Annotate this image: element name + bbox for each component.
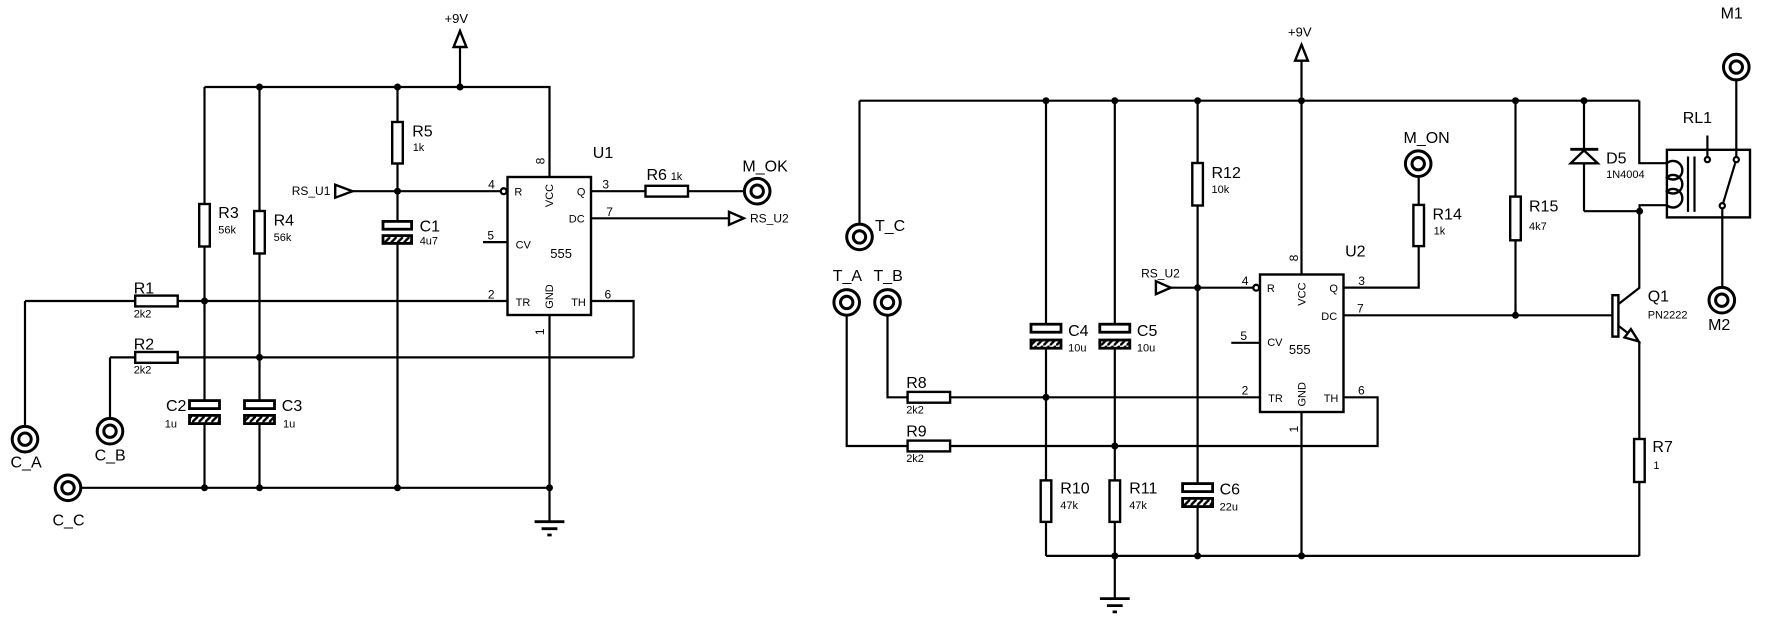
svg-text:2k2: 2k2 [906, 404, 924, 416]
node dot R15/DC [1512, 312, 1519, 319]
svg-text:GND: GND [544, 284, 556, 309]
wire U1 pin1 GND down [548, 315, 550, 488]
connector M_ON [1404, 130, 1450, 177]
wire U2 pin3 Q to R14 [1344, 246, 1419, 288]
power +9V symbol (left) [445, 11, 469, 87]
svg-text:U2: U2 [1345, 243, 1366, 260]
svg-text:C_C: C_C [53, 512, 85, 529]
svg-text:+9V: +9V [445, 11, 469, 26]
svg-text:22u: 22u [1220, 501, 1238, 513]
resistor R3 [199, 87, 239, 401]
wire top rail right [860, 100, 1640, 102]
svg-text:R15: R15 [1529, 199, 1558, 216]
collector [1618, 211, 1639, 304]
wire U2 pin1 GND [1300, 412, 1302, 556]
resistor R8 [906, 375, 1260, 417]
svg-text:2k2: 2k2 [906, 453, 924, 465]
svg-text:C6: C6 [1220, 481, 1241, 498]
wire U2 pin8 VCC [1300, 101, 1302, 275]
svg-text:U1: U1 [593, 145, 614, 162]
svg-text:555: 555 [550, 246, 572, 261]
emitter arrowhead [1625, 329, 1639, 341]
diode D5 [1570, 101, 1644, 212]
resistor R10 [1041, 480, 1090, 556]
svg-text:Q1: Q1 [1648, 288, 1669, 305]
svg-text:10k: 10k [1212, 184, 1230, 196]
resistor R1 [25, 280, 508, 320]
svg-text:R4: R4 [274, 212, 295, 229]
node dot C3 bottom [256, 484, 263, 491]
capacitor C3 [245, 398, 303, 488]
emitter [1618, 326, 1639, 439]
node dot C2 bottom [201, 484, 208, 491]
node dot R9/C5 [1111, 443, 1118, 450]
svg-text:1u: 1u [165, 419, 177, 431]
svg-text:1k: 1k [413, 142, 425, 154]
svg-text:C5: C5 [1137, 323, 1158, 340]
svg-text:C1: C1 [420, 219, 441, 236]
svg-text:RL1: RL1 [1683, 110, 1712, 127]
svg-text:6: 6 [1358, 384, 1365, 398]
node dot GND junction left [546, 484, 553, 491]
svg-text:VCC: VCC [544, 184, 556, 207]
power +9V symbol (right) [1288, 25, 1312, 101]
connector C_C [53, 475, 85, 529]
node dot +9V rail [457, 84, 464, 91]
svg-text:1: 1 [533, 328, 547, 335]
op-amp U1 555 timer [487, 145, 613, 335]
svg-text:+9V: +9V [1288, 25, 1312, 40]
svg-text:C4: C4 [1068, 323, 1089, 340]
net label RS_U2 out arrow [729, 212, 789, 226]
resistor R4 [254, 87, 294, 401]
svg-text:Q: Q [577, 186, 586, 198]
relay RL1 [1639, 101, 1750, 218]
svg-text:1N4004: 1N4004 [1606, 169, 1645, 181]
svg-text:M1: M1 [1721, 6, 1743, 23]
wire U1 pin7 DC out [591, 217, 729, 219]
svg-text:D5: D5 [1606, 150, 1627, 167]
svg-text:47k: 47k [1129, 500, 1147, 512]
svg-text:CV: CV [1267, 337, 1283, 349]
svg-text:PN2222: PN2222 [1648, 309, 1688, 321]
node dot R11 bottom [1111, 552, 1118, 559]
svg-text:RS_U2: RS_U2 [1141, 267, 1180, 281]
wire TH loop U1 [591, 301, 634, 357]
svg-text:4u7: 4u7 [420, 236, 438, 248]
core lines [1688, 157, 1695, 212]
svg-text:5: 5 [1240, 329, 1247, 343]
connector T_C [847, 101, 906, 250]
wire top rail left [205, 87, 550, 177]
net label RS_U1 [292, 184, 353, 198]
svg-text:1u: 1u [283, 419, 295, 431]
node dot C6 bottom [1194, 552, 1201, 559]
svg-text:R12: R12 [1212, 165, 1241, 182]
node dot R2/R4 [256, 354, 263, 361]
svg-text:R7: R7 [1652, 439, 1673, 456]
wire U1 pin5 stub [483, 241, 508, 243]
svg-text:R9: R9 [906, 424, 927, 441]
svg-text:RS_U1: RS_U1 [292, 184, 331, 198]
resistor R11 [1110, 480, 1158, 556]
svg-text:TR: TR [516, 297, 531, 309]
svg-text:4: 4 [488, 178, 495, 192]
wire U2 pin7 DC to Q1 base [1344, 314, 1613, 316]
coil arcs [1667, 161, 1682, 208]
svg-text:R: R [1267, 283, 1275, 295]
node dot U2 GND bottom [1298, 552, 1305, 559]
connector C_B [95, 357, 126, 464]
node dot R5 top [394, 84, 401, 91]
wire RS_U1 to U1 pin 4 [353, 190, 501, 192]
wire R12 to C6 [1196, 288, 1198, 484]
connector M_OK [742, 158, 788, 204]
wire bottom rail left [81, 487, 550, 489]
svg-text:C3: C3 [282, 398, 303, 415]
svg-text:5: 5 [487, 229, 494, 243]
svg-text:TH: TH [1324, 393, 1339, 405]
resistor R5 [392, 87, 433, 221]
svg-text:2: 2 [488, 287, 495, 301]
contact common stub [1706, 136, 1708, 157]
svg-text:M2: M2 [1708, 317, 1730, 334]
resistor R15 [1510, 101, 1558, 316]
svg-text:CV: CV [516, 239, 532, 251]
wire U2 pin5 stub [1231, 342, 1260, 344]
connector M1 [1721, 6, 1750, 157]
node dot C5 top [1111, 97, 1118, 104]
node dot R8/C4 [1043, 394, 1050, 401]
svg-text:8: 8 [534, 157, 548, 164]
svg-text:2k2: 2k2 [134, 365, 152, 377]
svg-text:M_OK: M_OK [742, 158, 788, 175]
node dot R12 top [1194, 97, 1201, 104]
node dot U2 VCC rail [1298, 97, 1305, 104]
contact circle NO (M1 side) [1734, 157, 1739, 162]
svg-text:R1: R1 [134, 280, 155, 297]
svg-text:R3: R3 [218, 205, 239, 222]
op-amp U2 555 timer [1240, 243, 1365, 432]
svg-text:47k: 47k [1060, 500, 1078, 512]
node dot R4 top [256, 84, 263, 91]
capacitor C5 [1100, 101, 1158, 481]
svg-text:56k: 56k [274, 232, 292, 244]
svg-text:555: 555 [1289, 342, 1311, 357]
resistor R9 [906, 397, 1377, 465]
svg-text:6: 6 [605, 287, 612, 301]
node dot R1/R3 [201, 298, 208, 305]
svg-text:1: 1 [1653, 460, 1659, 472]
node dot R5/C1 on reset wire [394, 188, 401, 195]
switch blade [1723, 163, 1735, 203]
transistor Q1 [1612, 211, 1687, 439]
svg-text:R5: R5 [412, 124, 433, 141]
capacitor C1 [383, 219, 440, 488]
node dot R12 reset [1194, 284, 1201, 291]
capacitor C4 [1031, 101, 1089, 481]
connector T_A [833, 268, 908, 446]
wire bottom rail right [1046, 555, 1639, 557]
contact circle common bottom [1720, 203, 1725, 208]
svg-text:C_B: C_B [95, 448, 126, 465]
svg-text:2k2: 2k2 [134, 308, 152, 320]
resistor R6 [591, 167, 745, 197]
svg-text:RS_U2: RS_U2 [750, 212, 789, 226]
svg-text:2: 2 [1242, 384, 1249, 398]
resistor R2 [110, 336, 634, 376]
svg-text:56k: 56k [218, 225, 236, 237]
svg-text:T_A: T_A [833, 268, 863, 285]
svg-text:TH: TH [571, 297, 586, 309]
svg-text:R: R [514, 186, 522, 198]
svg-text:DC: DC [569, 213, 585, 225]
connector C_A [11, 301, 42, 472]
coil top pin wire [1639, 101, 1667, 164]
resistor R14 [1413, 177, 1462, 247]
svg-text:4k7: 4k7 [1529, 221, 1547, 233]
net label RS_U2 in [1141, 267, 1180, 295]
svg-text:C_A: C_A [11, 455, 42, 472]
node dot C4 top [1043, 97, 1050, 104]
svg-text:R8: R8 [906, 375, 927, 392]
svg-text:T_C: T_C [875, 218, 905, 235]
ground symbol (left) [535, 488, 565, 535]
svg-text:TR: TR [1268, 393, 1283, 405]
node dot D5 top [1581, 97, 1588, 104]
contact circle NC [1705, 157, 1710, 162]
svg-text:10u: 10u [1137, 343, 1155, 355]
svg-text:4: 4 [1242, 274, 1249, 288]
svg-text:1k: 1k [671, 171, 683, 183]
wire RS_U2 to U2 pin 4 [1171, 287, 1253, 289]
connector M2 [1708, 209, 1735, 335]
node dot R15 top [1512, 97, 1519, 104]
svg-text:T_B: T_B [874, 268, 903, 285]
resistor R12 [1192, 101, 1241, 288]
svg-text:1k: 1k [1434, 225, 1446, 237]
ground symbol (right) [1100, 556, 1130, 612]
connector T_B [874, 268, 908, 397]
svg-text:R10: R10 [1060, 480, 1089, 497]
svg-text:M_ON: M_ON [1404, 130, 1450, 147]
svg-text:GND: GND [1296, 382, 1308, 407]
capacitor C2 [165, 398, 220, 488]
svg-text:C2: C2 [166, 398, 187, 415]
svg-text:3: 3 [602, 178, 609, 192]
svg-text:7: 7 [606, 205, 613, 219]
svg-text:1: 1 [1287, 426, 1301, 433]
svg-text:R11: R11 [1129, 480, 1157, 497]
svg-text:R6: R6 [647, 167, 668, 184]
svg-text:R2: R2 [134, 336, 155, 353]
node dot C1 bottom [394, 484, 401, 491]
svg-text:R14: R14 [1433, 207, 1462, 224]
svg-text:Q: Q [1329, 283, 1338, 295]
resistor R7 [1634, 439, 1673, 556]
svg-text:DC: DC [1321, 311, 1337, 323]
node dot D5/coil/Q1 [1636, 208, 1643, 215]
svg-text:3: 3 [1358, 274, 1365, 288]
svg-text:8: 8 [1287, 254, 1301, 261]
svg-text:10u: 10u [1068, 343, 1086, 355]
coil bottom pin wire [1640, 205, 1667, 211]
svg-text:VCC: VCC [1296, 282, 1308, 305]
svg-text:7: 7 [1357, 302, 1364, 316]
capacitor C6 [1183, 481, 1241, 556]
